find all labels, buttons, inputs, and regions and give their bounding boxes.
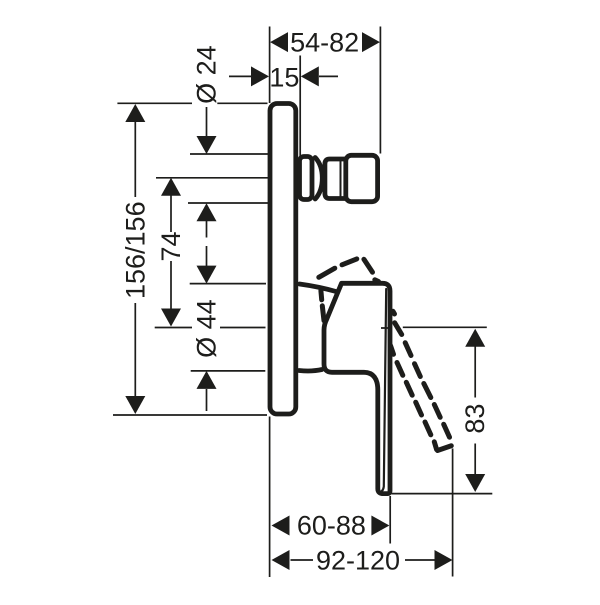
dash back edge v1 bbox=[318, 291, 324, 300]
ext knob top bbox=[190, 153, 268, 155]
arrow 83 top bbox=[465, 329, 485, 347]
arrow dia24 bottom bbox=[197, 203, 217, 221]
arrow dia24 top bbox=[197, 136, 217, 154]
tail 92-120 left bbox=[291, 559, 314, 561]
svg-text:Ø 24: Ø 24 bbox=[192, 45, 222, 104]
dash top edge 1 bbox=[319, 268, 335, 277]
arrowheads bbox=[125, 32, 485, 570]
ext handle tip bottom bbox=[452, 449, 454, 577]
knob sleeve bbox=[300, 157, 313, 200]
svg-text:54-82: 54-82 bbox=[290, 28, 359, 58]
ext plate top bbox=[117, 102, 267, 104]
arrow 54-82 right bbox=[362, 32, 380, 52]
tail 15 left arrow bbox=[229, 75, 251, 77]
handle lever outline bbox=[324, 283, 390, 493]
dim line dia24/dia44 column bbox=[206, 107, 208, 411]
ext grip front bottom bbox=[389, 496, 391, 544]
handle face line bbox=[380, 289, 387, 493]
arrow 15 left bbox=[251, 66, 269, 86]
ext 83 top bbox=[381, 326, 487, 329]
ext plate bottom bbox=[113, 414, 267, 416]
arrow 92-120 right bbox=[435, 550, 453, 570]
dash fragment over top edge bbox=[375, 280, 379, 282]
knob middle face line bbox=[340, 159, 342, 199]
ext hub bottom bbox=[191, 370, 266, 372]
dash back edge B bbox=[391, 346, 437, 450]
ext line 54-82 right bbox=[379, 27, 381, 154]
svg-text:15: 15 bbox=[269, 62, 299, 92]
ext line 15 right bbox=[299, 56, 301, 159]
dashed raised-handle outline bbox=[319, 259, 452, 451]
arrow dia44 bottom bbox=[197, 371, 217, 389]
knob middle cylinder bbox=[325, 159, 345, 199]
ext handle axis bbox=[155, 327, 266, 329]
wall plate bbox=[270, 104, 296, 415]
arrow 74 bottom bbox=[161, 309, 181, 327]
ext knob bottom bbox=[188, 202, 268, 204]
svg-text:92-120: 92-120 bbox=[316, 546, 400, 576]
arrow 74 top bbox=[161, 178, 181, 196]
arrow 83 bottom bbox=[465, 474, 485, 492]
ext line 54-82 left / 15 left bbox=[269, 27, 271, 104]
tail 15 right arrow bbox=[319, 75, 338, 77]
arrow 15 right bbox=[301, 66, 319, 86]
handle hub bottom arc bbox=[299, 370, 322, 371]
svg-text:83: 83 bbox=[460, 404, 490, 434]
dash front edge A bbox=[395, 323, 450, 437]
ext 83 bottom bbox=[392, 493, 493, 495]
arrow 156 top bbox=[125, 104, 145, 122]
ext hub top bbox=[190, 283, 266, 285]
arrow 60-88 left bbox=[272, 516, 290, 536]
tail 92-120 right bbox=[405, 559, 435, 561]
dash top edge 2 bbox=[342, 259, 357, 265]
arrow 60-88 right bbox=[371, 516, 389, 536]
thin dimension and extension lines bbox=[113, 27, 492, 578]
knob head cylinder bbox=[346, 155, 378, 201]
knob neck curve bbox=[315, 158, 322, 200]
ext plate-left bottom bbox=[269, 417, 271, 578]
dash fragment right of grip bbox=[393, 311, 395, 314]
dim line 74 bbox=[170, 195, 172, 309]
arrow 92-120 left bbox=[272, 550, 290, 570]
handle hub top arc bbox=[300, 284, 337, 292]
dim line 156/156 bbox=[134, 121, 136, 397]
svg-text:156/156: 156/156 bbox=[120, 201, 150, 299]
ext knob axis bbox=[156, 177, 268, 179]
arrow 156 bottom bbox=[125, 396, 145, 414]
dash front corner bbox=[364, 259, 373, 272]
svg-text:60-88: 60-88 bbox=[297, 511, 366, 541]
dim line 83 bbox=[474, 345, 476, 475]
arrow 54-82 left bbox=[270, 32, 288, 52]
svg-text:74: 74 bbox=[156, 231, 186, 261]
arrow dia44 top bbox=[197, 266, 217, 284]
dash back edge v2 bbox=[322, 306, 324, 321]
dash end cap bbox=[438, 446, 452, 451]
svg-text:Ø 44: Ø 44 bbox=[191, 299, 221, 358]
